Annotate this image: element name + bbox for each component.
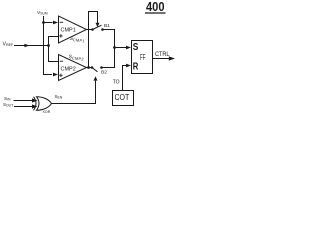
svg-text:B2: B2	[101, 70, 107, 76]
arrowhead XOR input top	[32, 98, 38, 102]
wire VREF branch up to CMP1 plus	[49, 37, 59, 46]
op-amp CMP1	[59, 16, 87, 43]
svg-text:B1: B1	[104, 23, 110, 29]
wire B1 control loop	[89, 12, 98, 68]
wire VREF branch down to CMP2 minus	[49, 46, 59, 62]
wire XOR input top	[14, 100, 34, 102]
svg-text:CTRL: CTRL	[155, 52, 170, 58]
svg-text:XOR: XOR	[43, 110, 51, 114]
arrowhead CTRL output	[169, 56, 175, 60]
wire S node to FF S input	[115, 47, 127, 49]
wire CMP1 output	[87, 29, 93, 31]
wire Vsum to CMP1 minus	[44, 22, 53, 24]
svg-text:CMP1: CMP1	[61, 27, 76, 33]
svg-text:SCMP1: SCMP1	[69, 36, 85, 44]
arrowhead on VREF wire	[24, 44, 29, 48]
junction node CMP2 out / B1 control	[87, 66, 90, 69]
wire Sen from XOR to B2 control	[52, 81, 96, 104]
CMP2 plus sign	[59, 74, 62, 77]
arrowhead Vsum into CMP2 plus	[53, 73, 58, 77]
XOR gate body	[37, 97, 52, 111]
flip-flop FF box	[132, 41, 153, 74]
arrowhead Vsum into CMP1 minus	[53, 21, 58, 25]
svg-text:S: S	[133, 42, 139, 53]
switch B2 left contact	[91, 66, 94, 69]
wire B2 output up to S node	[102, 48, 115, 68]
switch B1 left contact	[91, 28, 94, 31]
svg-text:COT: COT	[115, 92, 130, 102]
svg-text:TO: TO	[113, 80, 120, 86]
arrowhead B1 control (down)	[96, 23, 100, 28]
CMP1 minus sign	[60, 21, 63, 23]
svg-text:VREF: VREF	[3, 41, 15, 47]
svg-text:FF: FF	[140, 53, 146, 62]
junction node S	[113, 46, 116, 49]
svg-text:SIN: SIN	[4, 96, 11, 102]
XOR gate input arc	[34, 97, 37, 111]
COT box	[113, 91, 134, 106]
CMP2 minus sign	[60, 60, 63, 62]
wire XOR input bottom	[14, 106, 34, 108]
title underline	[145, 12, 166, 14]
switch B2 blade	[92, 68, 98, 72]
wire CMP2 output	[87, 67, 93, 69]
switch B2 right contact	[100, 66, 103, 69]
junction node VREF split	[47, 44, 50, 47]
arrowhead XOR input bottom	[32, 104, 38, 108]
junction node Vsum/CMP1	[42, 21, 45, 24]
CMP1 plus sign	[59, 34, 62, 37]
svg-text:SEN: SEN	[55, 94, 63, 100]
switch B1 right contact	[101, 28, 104, 31]
wire TO from COT to FF R input	[123, 66, 127, 91]
arrowhead into FF S input	[126, 46, 131, 50]
svg-text:SOUT: SOUT	[3, 102, 13, 108]
svg-text:VSUM: VSUM	[37, 10, 48, 16]
switch B1 blade	[93, 25, 102, 29]
svg-text:CMP2: CMP2	[61, 67, 76, 73]
svg-text:400: 400	[146, 0, 165, 14]
wire B1 output to S node	[103, 30, 115, 48]
arrowhead B2 control (up)	[94, 76, 98, 80]
wire CTRL output	[153, 58, 170, 60]
op-amp CMP2	[59, 55, 87, 81]
svg-text:R: R	[133, 61, 139, 72]
wire VREF horizontal	[14, 45, 49, 47]
arrowhead into FF R input	[126, 64, 131, 68]
wire Vsum vertical trunk	[44, 16, 53, 75]
